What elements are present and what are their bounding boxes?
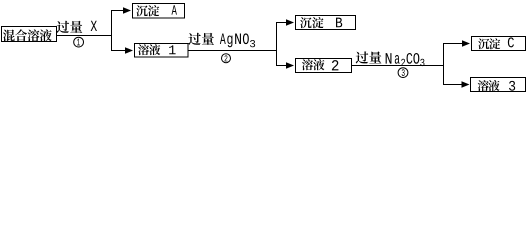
label ③ circled 3	[398, 68, 408, 78]
box: solution 3 溶液 3	[471, 78, 526, 92]
wire+arrow into 沉淀 B	[277, 19, 295, 26]
wire+arrow into 溶液 1	[112, 47, 134, 54]
label 过量 X (step 1 reagent)	[57, 21, 97, 33]
branch 3 vertical wire	[443, 43, 445, 85]
wire from 混合溶液 to branch 1	[57, 35, 113, 37]
text 沉淀 C	[478, 37, 514, 49]
branch 1 vertical wire	[111, 10, 113, 51]
text 混合溶液	[3, 29, 52, 41]
box: precipitate A 沉淀 A	[133, 4, 185, 19]
wire+arrow into 溶液 2	[277, 62, 295, 69]
label 过量 Na2CO3 (step 3 reagent)	[356, 51, 425, 66]
text 沉淀 B	[300, 17, 342, 28]
box: precipitate C 沉淀 C	[472, 37, 526, 51]
wire+arrow into 溶液 3	[444, 81, 470, 88]
label 过量 AgNO3 (step 2 reagent)	[188, 33, 255, 48]
text 溶液 1	[138, 44, 176, 55]
wire+arrow into 沉淀 C	[444, 40, 471, 47]
branch 2 vertical wire	[276, 22, 278, 66]
wire from 溶液 1 to branch 2	[188, 50, 277, 52]
box: precipitate B 沉淀 B	[296, 16, 356, 30]
box: solution 1 溶液 1	[135, 44, 189, 58]
wire+arrow into 沉淀 A	[112, 7, 132, 14]
text 沉淀 A	[136, 5, 177, 16]
label ① circled 1	[74, 37, 84, 47]
label ② circled 2	[222, 54, 231, 63]
wire from 溶液 2 to branch 3	[352, 65, 445, 67]
box: solution 2 溶液 2	[296, 59, 352, 73]
text 溶液 3	[478, 80, 515, 91]
box: mixed solution 混合溶液	[2, 27, 57, 42]
text 溶液 2	[302, 59, 339, 70]
